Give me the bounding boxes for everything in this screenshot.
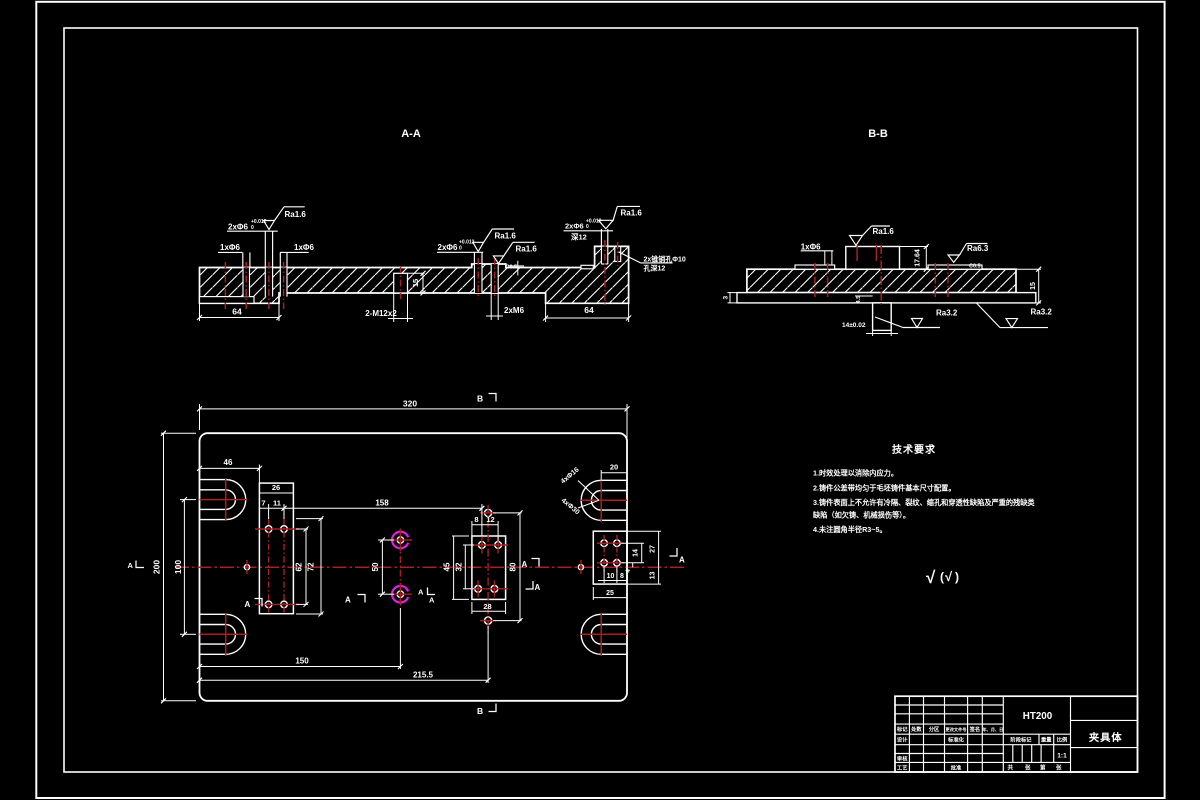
A-A label 1xPhi6 left with underline and extension lines bbox=[218, 243, 250, 268]
svg-text:√: √ bbox=[926, 568, 936, 587]
plan center-right circle 4 bbox=[491, 585, 498, 592]
svg-text:12: 12 bbox=[486, 515, 494, 524]
title block grid lines bbox=[895, 696, 1138, 772]
svg-text:64: 64 bbox=[232, 307, 242, 317]
plan right pad circle 1 bbox=[601, 540, 608, 547]
B-B dimension 15 right bbox=[1016, 267, 1041, 306]
plan dimension 45 bbox=[443, 536, 470, 599]
B-B dimension 4.5 near tenon bbox=[855, 296, 873, 304]
plan right pad circle 3 bbox=[601, 560, 608, 567]
plan left pad rectangle bbox=[259, 483, 293, 614]
svg-text:158: 158 bbox=[375, 499, 389, 508]
svg-text:A-A: A-A bbox=[401, 128, 421, 140]
plan section marker A right-bottom bbox=[526, 581, 541, 592]
svg-text:20: 20 bbox=[610, 463, 618, 472]
svg-text:27: 27 bbox=[650, 545, 657, 553]
plan right pad rectangle bbox=[593, 531, 627, 584]
A-A red centerline pad hole1 bbox=[477, 258, 479, 299]
B-B red centerline right pad hole1 bbox=[934, 263, 936, 298]
plan slot lower-right inner outline bbox=[591, 625, 627, 645]
plan slot upper-left outer arc bbox=[200, 480, 246, 520]
svg-text:A: A bbox=[429, 596, 435, 605]
B-B red centerline boss hole1 bbox=[856, 245, 858, 261]
plan red centerline between magenta holes bbox=[399, 529, 401, 606]
plan right pad circle 2 bbox=[614, 540, 621, 547]
plan slot lower-left inner outline bbox=[200, 625, 236, 645]
svg-text:1xΦ6: 1xΦ6 bbox=[801, 242, 821, 251]
plan dimension 25 right pad bbox=[593, 587, 627, 600]
A-A Ra1.6 leader (left) bbox=[275, 207, 305, 221]
B-B red centerline left pad hole1 bbox=[814, 263, 816, 298]
plan center-right circle 2 bbox=[495, 542, 502, 549]
B-B right top pad bbox=[928, 265, 982, 269]
plan section marker A far right bbox=[670, 548, 686, 565]
svg-text:工艺: 工艺 bbox=[897, 764, 908, 772]
B-B countersink symbol over boss bbox=[850, 236, 863, 246]
svg-text:1.时效处理以消除内应力。: 1.时效处理以消除内应力。 bbox=[813, 469, 898, 478]
svg-text:2.铸件公差带均匀于毛坯铸件基本尺寸配置。: 2.铸件公差带均匀于毛坯铸件基本尺寸配置。 bbox=[813, 483, 956, 492]
A-A red centerline boss hole bbox=[604, 240, 606, 306]
B-B dimension 17.64 bbox=[900, 244, 929, 272]
svg-text:Ra3.2: Ra3.2 bbox=[1031, 308, 1053, 317]
plan slot lower-right outer arc bbox=[581, 614, 627, 654]
surface finish note checkmarks bbox=[926, 568, 959, 587]
B-B tenon block below base bbox=[873, 303, 892, 331]
plan main horizontal red centerline bbox=[175, 566, 684, 568]
B-B bottom base strip bbox=[737, 293, 1036, 303]
A-A section body outline with hatching bbox=[200, 246, 629, 303]
A-A countersunk hole 2xPhi6 left bbox=[265, 268, 272, 297]
B-B center boss bbox=[846, 247, 900, 270]
svg-text:B: B bbox=[477, 394, 483, 404]
svg-text:B: B bbox=[477, 706, 483, 716]
A-A red centerline M12 hole bbox=[400, 266, 402, 299]
plan right pad circle 4 bbox=[614, 560, 621, 567]
svg-text:80: 80 bbox=[509, 562, 518, 571]
A-A red centerline countersunk hole bbox=[268, 262, 270, 309]
svg-text:3: 3 bbox=[723, 296, 730, 300]
plan dimension 100 left bbox=[173, 497, 196, 637]
svg-text:100: 100 bbox=[173, 560, 183, 574]
plan dimension 20 top right bbox=[601, 430, 627, 481]
plan dimension 158 bbox=[282, 499, 485, 537]
plan dimension 14 right pad bbox=[621, 543, 645, 563]
plan left pad bolt circle 2 bbox=[281, 526, 288, 533]
A-A pad hole 1 bbox=[474, 264, 482, 293]
B-B red centerline boss hole2 bbox=[875, 245, 877, 261]
plan center-right pad rectangle bbox=[472, 536, 506, 599]
plan dimension 50 bbox=[371, 538, 394, 597]
A-A pin hole leader bbox=[619, 252, 673, 263]
plan section marker A right-top bbox=[522, 559, 540, 570]
svg-text:第: 第 bbox=[1040, 764, 1046, 772]
plan slot lower-left outer arc bbox=[200, 614, 246, 654]
svg-text:0: 0 bbox=[251, 225, 254, 231]
svg-text:62: 62 bbox=[295, 562, 304, 571]
svg-text:14: 14 bbox=[633, 549, 640, 557]
svg-text:张: 张 bbox=[1025, 764, 1031, 772]
plan left pad bolt circle 3 bbox=[265, 601, 272, 608]
A-A countersink symbol over boss hole bbox=[564, 220, 614, 246]
A-A Ra1.6 leader (boss) bbox=[613, 206, 640, 220]
svg-text:17.64: 17.64 bbox=[915, 249, 922, 267]
A-A small pad left of right boss bbox=[581, 265, 593, 269]
plan small circle right on centerline bbox=[578, 560, 583, 574]
svg-text:1xΦ6: 1xΦ6 bbox=[220, 243, 240, 252]
svg-text:14±0.02: 14±0.02 bbox=[842, 322, 866, 329]
plan section marker A far left bbox=[128, 561, 145, 571]
svg-text:审核: 审核 bbox=[897, 754, 908, 762]
svg-text:50: 50 bbox=[371, 562, 380, 571]
plan dimension 4 right pad bbox=[626, 563, 633, 573]
A-A label 2xPhi6 with tolerance (middle) bbox=[438, 240, 475, 253]
svg-text:3.铸件表面上不允许有冷隔、裂纹、缩孔和穿透性缺陷及严重的残: 3.铸件表面上不允许有冷隔、裂纹、缩孔和穿透性缺陷及严重的残缺类 bbox=[813, 498, 1035, 507]
svg-text:标记: 标记 bbox=[896, 725, 908, 733]
B-B label 1xPhi6 with underline and extension lines bbox=[801, 242, 834, 265]
plan dimension 28 bbox=[472, 602, 506, 614]
B-B Ra3.2 symbol 2 with leader bbox=[976, 303, 1048, 328]
A-A countersink symbol over pad hole1 bbox=[437, 242, 484, 264]
svg-text:215.5: 215.5 bbox=[413, 671, 434, 680]
plan center-right single circle top bbox=[485, 509, 492, 516]
A-A label 1xPhi6 right with underline and extension lines bbox=[280, 243, 314, 268]
svg-text:Ra1.6: Ra1.6 bbox=[495, 232, 517, 241]
svg-text:2-M12x2: 2-M12x2 bbox=[365, 309, 397, 318]
svg-text:比例: 比例 bbox=[1057, 736, 1068, 744]
svg-text:0: 0 bbox=[459, 246, 462, 252]
svg-text:45: 45 bbox=[443, 562, 452, 571]
svg-text:4.未注圆角半径R3~5。: 4.未注圆角半径R3~5。 bbox=[813, 525, 887, 534]
svg-text:8: 8 bbox=[620, 573, 624, 580]
A-A hole (2xM6 left pair) bbox=[243, 268, 250, 297]
plan slot upper-right inner outline bbox=[591, 491, 627, 511]
svg-text:4.5: 4.5 bbox=[856, 296, 862, 304]
plan dimension 10 and 8 right pad bbox=[598, 566, 627, 583]
plan slot lower-left red crosshair bbox=[200, 613, 248, 656]
svg-text:25: 25 bbox=[606, 590, 614, 597]
svg-text:签名: 签名 bbox=[969, 725, 981, 733]
A-A label 2xPhi6 with tolerance (left) bbox=[228, 219, 267, 232]
A-A Ra1.6 leader (pad hole2) bbox=[504, 242, 535, 256]
svg-text:重量: 重量 bbox=[1041, 736, 1052, 744]
svg-text:A: A bbox=[535, 583, 541, 592]
plan slot lower-right red crosshair bbox=[580, 613, 627, 656]
svg-text:A: A bbox=[245, 600, 251, 609]
plan dimension 72 left pad bbox=[296, 516, 324, 616]
svg-text:年、月、日: 年、月、日 bbox=[982, 726, 1003, 733]
B-B red centerline left pad hole2 bbox=[827, 263, 829, 298]
svg-text:B-B: B-B bbox=[868, 128, 888, 140]
plan section marker A center-bottom bbox=[345, 595, 365, 605]
svg-text:A: A bbox=[128, 561, 134, 570]
svg-text:A: A bbox=[522, 560, 528, 569]
svg-text:C0.5: C0.5 bbox=[506, 265, 518, 271]
A-A countersink symbol over pad hole2 bbox=[493, 256, 503, 264]
svg-text:处数: 处数 bbox=[910, 725, 922, 733]
svg-text:): ) bbox=[955, 570, 959, 584]
plan leader 4xPhi16 bbox=[560, 466, 599, 500]
B-B Ra1.6 leader bbox=[863, 226, 891, 236]
svg-text:Ra1.6: Ra1.6 bbox=[285, 210, 307, 219]
svg-text:(: ( bbox=[940, 570, 944, 584]
svg-text:2xM6: 2xM6 bbox=[504, 306, 525, 315]
A-A dimension 64 right bbox=[543, 303, 631, 322]
plan slot upper-right red crosshair bbox=[580, 479, 627, 522]
title block label gong zhang di zhang bbox=[1008, 764, 1063, 772]
B-B red centerline through boss and tenon bbox=[880, 245, 882, 306]
svg-text:更改文件号: 更改文件号 bbox=[946, 726, 967, 733]
plan section marker B bottom bbox=[477, 704, 496, 717]
svg-text:46: 46 bbox=[224, 458, 233, 467]
A-A dimension 2xM6 bbox=[486, 293, 525, 320]
svg-text:2x锥销孔Φ10: 2x锥销孔Φ10 bbox=[644, 255, 686, 264]
B-B left top pad bbox=[795, 265, 835, 269]
plan leader 4xPhi30 bbox=[560, 497, 599, 516]
plan small circle left on centerline bbox=[244, 560, 249, 574]
svg-text:15: 15 bbox=[1030, 282, 1037, 290]
plan dimension 62 left pad bbox=[295, 527, 309, 607]
A-A boss pin hole bbox=[615, 247, 621, 262]
title block outer frame bbox=[895, 696, 1138, 772]
svg-text:64: 64 bbox=[584, 305, 594, 315]
plan center-right circle 3 bbox=[475, 585, 482, 592]
svg-text:10: 10 bbox=[607, 573, 615, 580]
plan dimension 215.5 bottom bbox=[197, 626, 491, 683]
plan dimension 150 bottom bbox=[197, 608, 403, 669]
svg-text:技术要求: 技术要求 bbox=[892, 443, 936, 456]
svg-text:夹具体: 夹具体 bbox=[1089, 731, 1123, 744]
plan dimension 320 top bbox=[197, 399, 630, 431]
svg-text:28: 28 bbox=[483, 602, 491, 611]
svg-text:HT200: HT200 bbox=[1023, 711, 1053, 722]
svg-text:设计: 设计 bbox=[897, 736, 908, 744]
A-A hole right of left block bbox=[280, 268, 287, 297]
svg-text:200: 200 bbox=[152, 560, 162, 574]
svg-text:A: A bbox=[679, 556, 685, 565]
svg-text:32: 32 bbox=[455, 562, 464, 571]
A-A boss tapped hole bbox=[601, 247, 607, 264]
svg-text:11: 11 bbox=[273, 499, 281, 508]
svg-text:1xΦ6: 1xΦ6 bbox=[294, 243, 314, 252]
B-B tenon width dimension 14 with tolerance bbox=[842, 322, 898, 336]
svg-text:320: 320 bbox=[403, 399, 417, 409]
B-B Ra3.2 symbol 1 with leader bbox=[875, 317, 940, 328]
plan section marker A left bbox=[245, 599, 263, 610]
plan slot upper-right outer arc bbox=[581, 480, 627, 520]
plan section marker B top bbox=[477, 394, 496, 404]
svg-text:26: 26 bbox=[272, 483, 280, 492]
svg-text:Ra3.2: Ra3.2 bbox=[936, 309, 958, 318]
plan dimension 200 left bbox=[152, 431, 197, 704]
title block row labels: biaoji chushu fenqu genggai wenjianhao qianming nianyueri bbox=[896, 725, 1003, 733]
svg-text:Ra1.6: Ra1.6 bbox=[621, 209, 643, 218]
A-A Ra1.6 leader (pad hole1) bbox=[484, 229, 514, 242]
plan left pad bolt circle 1 bbox=[265, 526, 272, 533]
svg-text:2xΦ6: 2xΦ6 bbox=[565, 222, 584, 231]
A-A red centerline pad hole2 bbox=[494, 258, 496, 299]
A-A red centerline pin hole bbox=[617, 242, 619, 266]
svg-text:C0.5: C0.5 bbox=[969, 264, 981, 270]
svg-text:72: 72 bbox=[307, 562, 316, 571]
A-A small step dimension tick near pad bbox=[508, 261, 524, 276]
plan slot upper-left red crosshair bbox=[200, 478, 248, 521]
svg-text:8: 8 bbox=[474, 515, 478, 524]
A-A left foot strip (unhatched) bbox=[200, 297, 255, 304]
svg-text:13: 13 bbox=[650, 572, 657, 580]
svg-text:深12: 深12 bbox=[571, 232, 587, 242]
svg-text:分区: 分区 bbox=[929, 725, 940, 733]
plan right pad red centerlines bbox=[597, 535, 624, 572]
plan dimension 80 bbox=[493, 510, 523, 623]
plan dimension 13 right pad bbox=[627, 567, 661, 584]
svg-text:张: 张 bbox=[1056, 764, 1062, 772]
svg-text:15: 15 bbox=[411, 279, 420, 287]
B-B main band with hatching bbox=[747, 269, 1016, 292]
svg-text:√: √ bbox=[945, 569, 953, 584]
svg-text:1:1: 1:1 bbox=[1057, 753, 1067, 760]
plan center-right circle 1 bbox=[479, 542, 486, 549]
plan dimension 26 bbox=[259, 483, 293, 493]
plan slot upper-left inner outline bbox=[200, 490, 236, 510]
svg-text:Ra1.6: Ra1.6 bbox=[516, 245, 538, 254]
A-A label 2xPhi6 with tolerance (boss) bbox=[565, 219, 602, 231]
plan left pad bolt circle 4 bbox=[281, 601, 288, 608]
plan center-right red centerlines bbox=[470, 505, 508, 634]
svg-text:共: 共 bbox=[1008, 764, 1014, 772]
A-A M12 blind hole center bbox=[394, 273, 408, 293]
B-B Ra6.3 surface symbol bbox=[948, 244, 988, 263]
plan center-right single circle bottom bbox=[485, 617, 492, 624]
plan dimension 7 and 11 bbox=[259, 499, 284, 520]
A-A red centerline hole4 bbox=[283, 262, 285, 309]
svg-text:A: A bbox=[418, 588, 424, 597]
plan magenta threaded hole top bbox=[389, 529, 412, 552]
plan dimension 8 and 12 bbox=[472, 515, 498, 541]
svg-text:150: 150 bbox=[295, 657, 309, 666]
plan dimension 46 bbox=[197, 458, 262, 483]
svg-text:2xΦ6: 2xΦ6 bbox=[228, 223, 248, 232]
svg-text:Ra1.6: Ra1.6 bbox=[873, 227, 895, 236]
plan dimension 27 right pad bbox=[627, 531, 661, 567]
A-A dimension 15 depth bbox=[408, 271, 426, 296]
A-A countersink symbol over left hole bbox=[227, 221, 278, 268]
plan dimension 32 bbox=[455, 545, 475, 589]
svg-text:Ra6.3: Ra6.3 bbox=[967, 244, 989, 253]
plan left pad red centerlines bbox=[255, 519, 299, 613]
svg-text:A: A bbox=[345, 596, 351, 605]
svg-text:标准化: 标准化 bbox=[947, 736, 965, 744]
A-A pad hole 2 bbox=[491, 264, 498, 293]
plan plate outline bbox=[200, 433, 628, 701]
plan magenta threaded hole bottom bbox=[389, 583, 412, 606]
B-B red centerline right pad hole2 bbox=[947, 263, 949, 298]
svg-text:孔深12: 孔深12 bbox=[644, 264, 666, 273]
B-B dimension 3 left bbox=[723, 293, 738, 303]
plan section marker A-A pair center bbox=[418, 588, 435, 605]
svg-text:2xΦ6: 2xΦ6 bbox=[438, 243, 458, 252]
svg-text:阶段标记: 阶段标记 bbox=[1010, 736, 1032, 744]
svg-text:0: 0 bbox=[586, 224, 589, 230]
A-A red centerline hole1 bbox=[224, 262, 226, 309]
A-A dimension 2-M12x2 bbox=[365, 293, 413, 322]
A-A red centerline hole2 bbox=[245, 262, 247, 309]
svg-text:缺陷（如欠铸、机械损伤等）。: 缺陷（如欠铸、机械损伤等）。 bbox=[812, 511, 910, 520]
svg-text:批准: 批准 bbox=[951, 764, 962, 772]
A-A dimension 64 left bbox=[197, 303, 282, 321]
svg-text:7: 7 bbox=[261, 499, 265, 508]
